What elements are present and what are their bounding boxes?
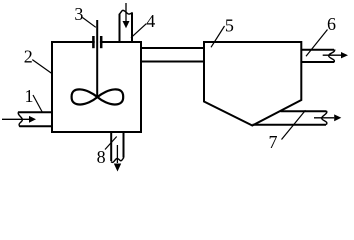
leader line 4: [131, 24, 146, 38]
drain arrow 8 shaft: [116, 145, 118, 163]
settler vessel: [204, 42, 301, 126]
tank vessel (reactor): [52, 42, 141, 132]
sludge pipe 7 top line: [281, 110, 327, 112]
drain arrow 8 head: [114, 164, 121, 172]
svg-text:5: 5: [225, 15, 234, 35]
svg-text:6: 6: [327, 14, 336, 34]
leader line 8: [105, 137, 117, 150]
feed arrow 4 shaft: [125, 3, 127, 21]
svg-text:2: 2: [24, 46, 33, 66]
outlet pipe 6 break squiggle: [329, 50, 335, 63]
connector pipe top line: [141, 47, 204, 49]
leader line 3: [83, 18, 96, 28]
inlet pipe 1 top line: [19, 111, 52, 113]
leader line 2: [32, 60, 51, 74]
inlet arrow 1 shaft: [2, 118, 29, 120]
leader line 1: [33, 95, 43, 113]
svg-text:1: 1: [25, 86, 34, 106]
leader line 6: [306, 30, 328, 57]
impeller (figure-eight): [72, 89, 124, 104]
gap in tank top for shaft: [95, 41, 100, 44]
svg-text:7: 7: [269, 132, 278, 152]
sludge arrow 7 shaft: [314, 117, 334, 119]
svg-text:3: 3: [74, 4, 83, 24]
sludge pipe 7 bottom line: [253, 124, 327, 126]
outlet arrow 6 shaft: [323, 54, 341, 56]
stirrer shaft: [96, 20, 98, 97]
outlet pipe 6 bottom line: [301, 61, 334, 63]
feed arrow 4 head: [123, 21, 130, 28]
drain pipe 8 right line: [123, 133, 125, 158]
sludge arrow 7 head: [334, 114, 341, 121]
inlet pipe 1 bottom line: [20, 125, 52, 127]
drain pipe 8 left line: [110, 133, 112, 161]
outlet arrow 6 head: [341, 52, 348, 58]
inlet arrow 1 head: [29, 116, 36, 123]
drain pipe 8 break squiggle: [111, 158, 124, 163]
feed pipe 4 break squiggle: [119, 10, 133, 14]
connector pipe bottom line: [141, 61, 204, 63]
feed pipe 4 left line: [119, 14, 121, 42]
outlet pipe 6 top line: [301, 49, 334, 51]
feed pipe 4 right line: [131, 13, 133, 43]
sludge pipe 7 break squiggle: [322, 111, 327, 125]
leader line 5: [211, 26, 225, 47]
shaft seal right bar: [100, 36, 103, 48]
inlet pipe 1 break squiggle: [18, 112, 22, 128]
leader line 7: [282, 110, 306, 139]
svg-text:8: 8: [97, 147, 106, 167]
svg-text:4: 4: [146, 11, 155, 31]
shaft seal left bar: [92, 36, 95, 48]
